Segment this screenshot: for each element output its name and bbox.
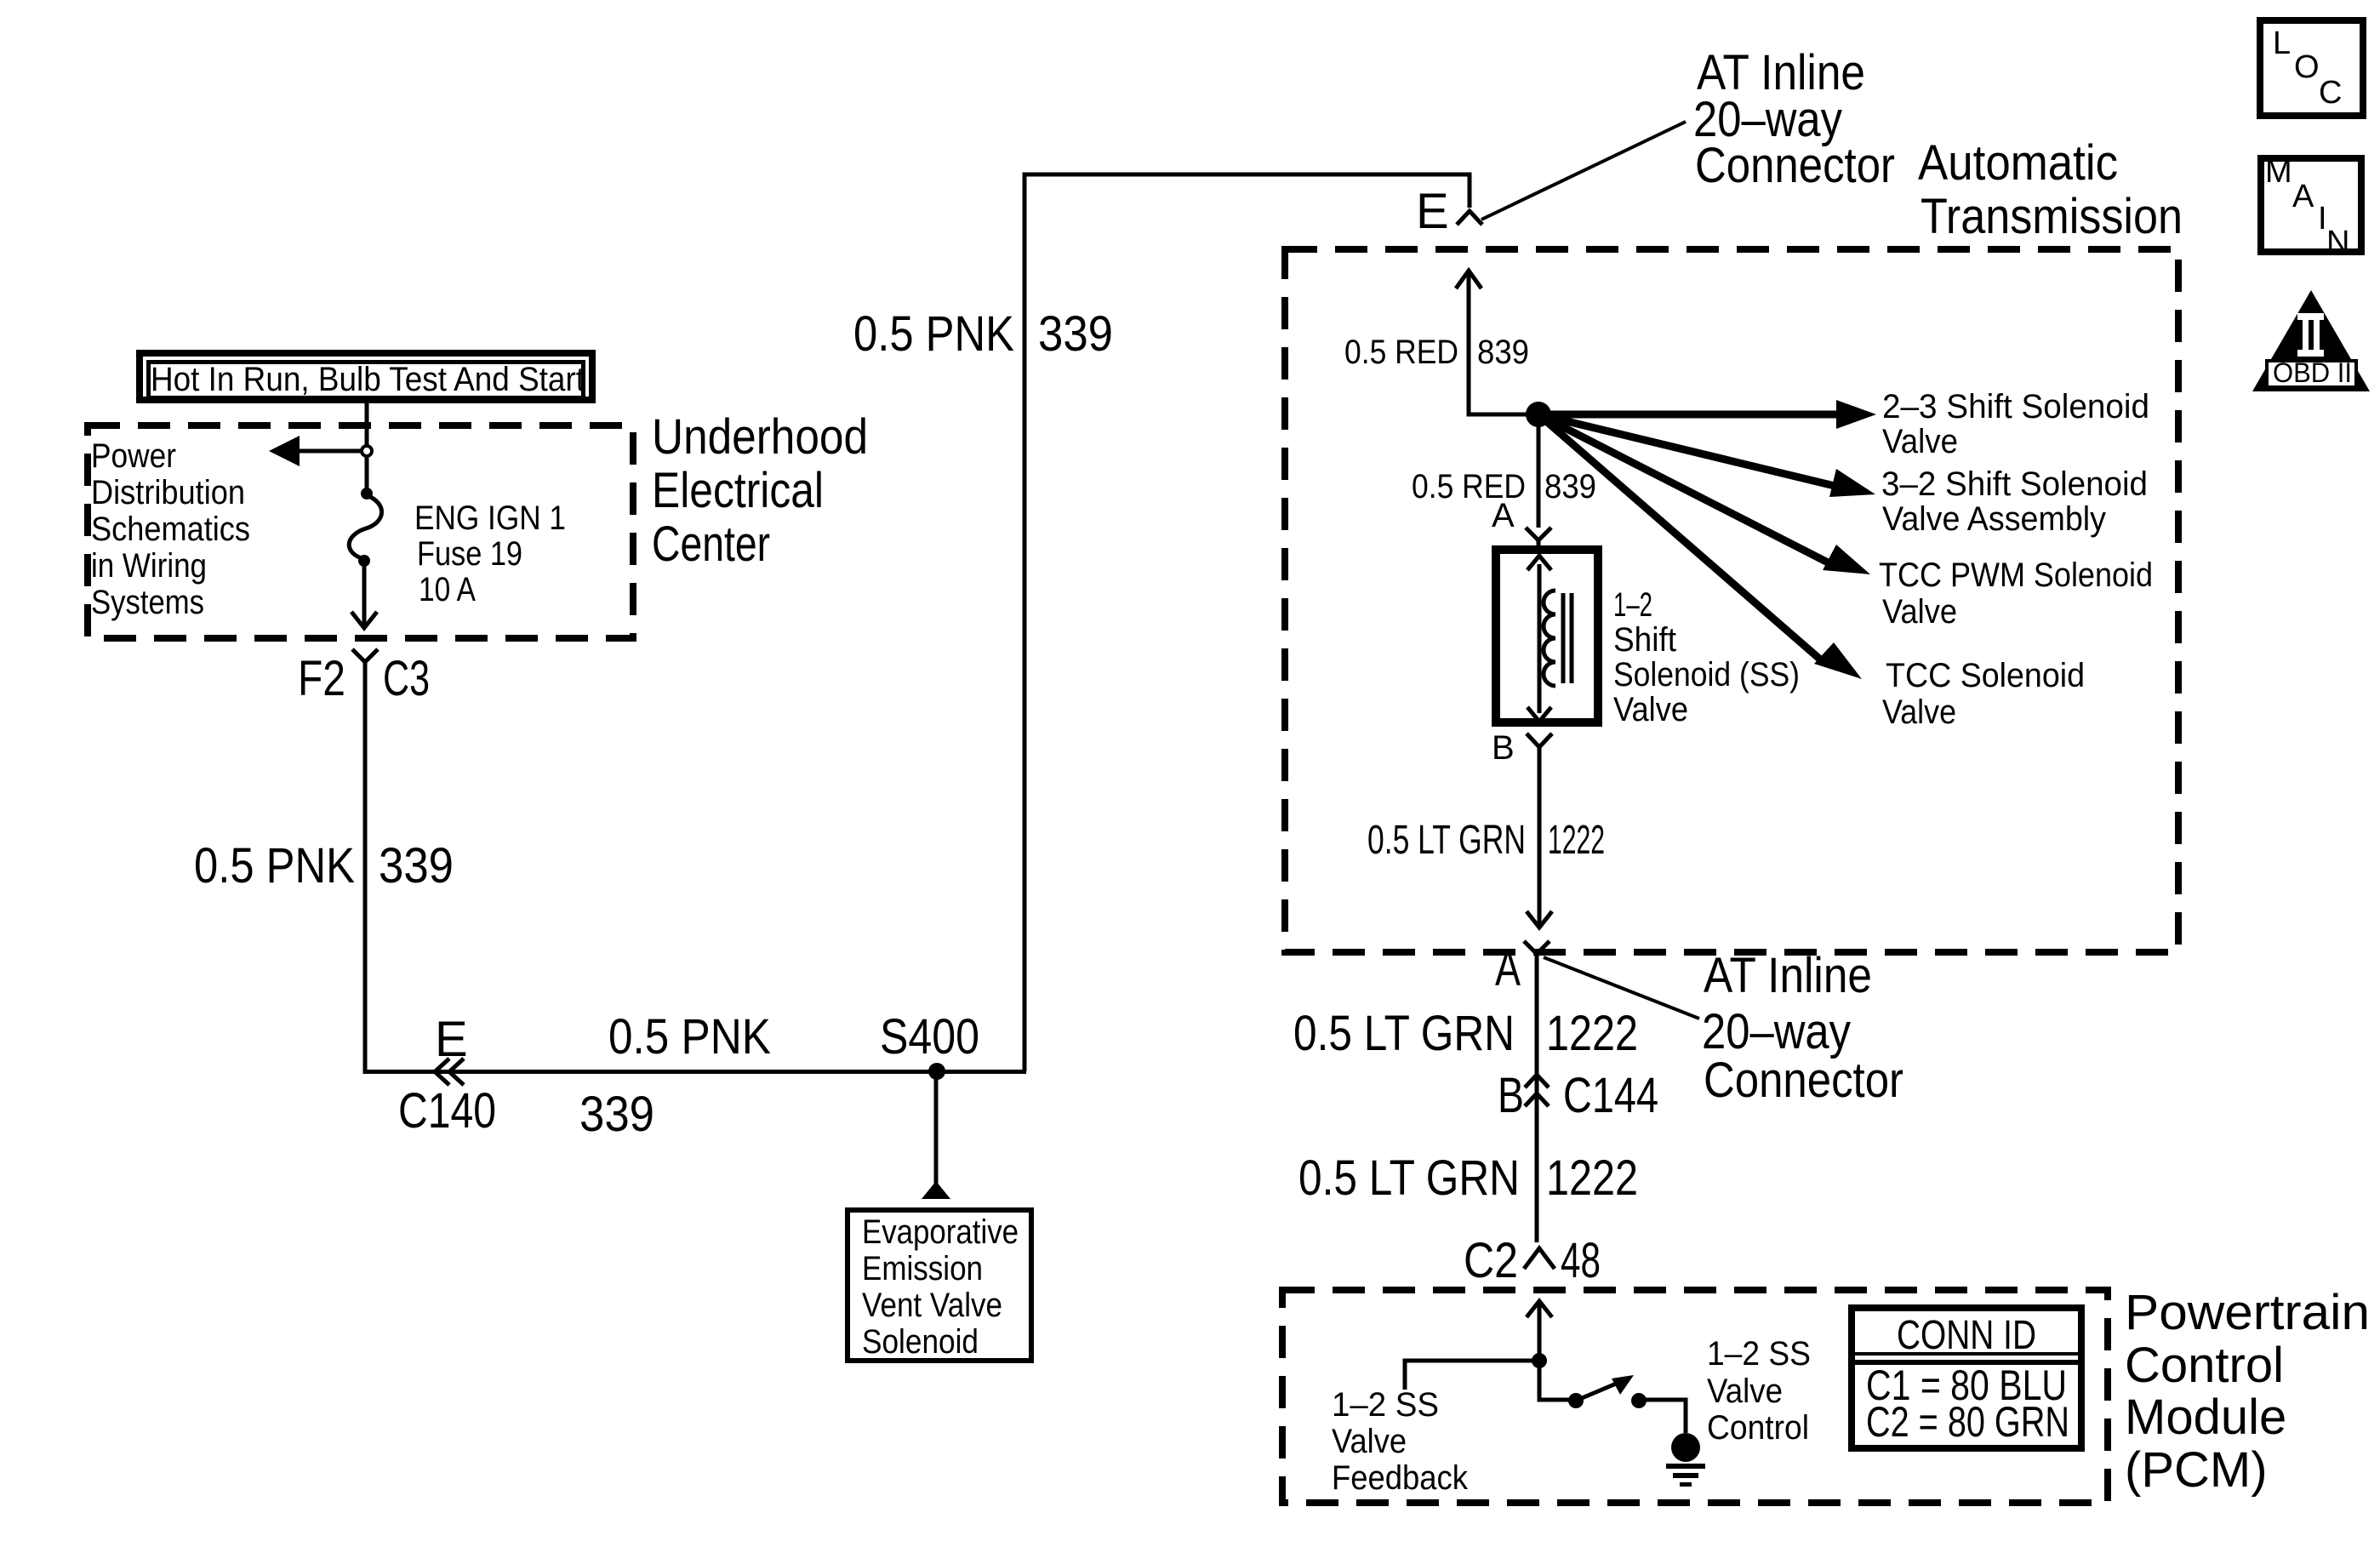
svg-text:839: 839 [1544,468,1596,505]
svg-text:ENG IGN 1: ENG IGN 1 [414,499,566,537]
wire fuse to F2 with down arrow [351,561,377,628]
label Powertrain Control Module (PCM) [2125,1285,2370,1498]
wire arrow to power distribution (left) [269,436,367,466]
svg-text:O: O [2294,49,2320,85]
svg-text:10 A: 10 A [419,571,476,608]
wire arrow to TCC PWM Solenoid Valve [1538,414,1870,574]
svg-text:Power: Power [91,437,176,475]
label Automatic Transmission [1918,135,2183,244]
svg-text:Valve: Valve [1882,694,1956,731]
wire 0.5 LT GRN 1222 (valve to inline pin A) with down arrow [1527,747,1552,928]
svg-text:339: 339 [579,1087,654,1142]
svg-text:OBD II: OBD II [2273,357,2352,388]
wire arrow to 2-3 Shift Solenoid Valve [1538,400,1876,429]
wire S400 down to Evaporative Emission Vent Valve Solenoid [922,1071,950,1199]
svg-text:Electrical: Electrical [652,463,824,518]
svg-text:Control: Control [2125,1338,2284,1393]
switch (1-2 SS driver) in PCM [1539,1361,1686,1433]
svg-text:Distribution: Distribution [91,474,245,511]
leader line to AT Inline label (bottom) [1544,957,1699,1019]
svg-text:Valve Assembly: Valve Assembly [1882,500,2106,538]
svg-text:TCC Solenoid: TCC Solenoid [1886,657,2085,694]
svg-text:Powertrain: Powertrain [2125,1285,2370,1340]
fuse box label "Hot In Run, Bulb Test And Start" [140,353,592,400]
svg-text:E: E [1416,184,1449,239]
wire 0.5 RED 839 (splice to 1-2 SS valve pin A) [1537,414,1541,528]
svg-text:1222: 1222 [1546,1150,1638,1206]
pin A of 1-2 shift solenoid [1492,497,1551,545]
svg-text:C2 = 80 GRN: C2 = 80 GRN [1866,1398,2069,1446]
svg-text:0.5 LT GRN: 0.5 LT GRN [1293,1006,1515,1061]
svg-text:0.5 PNK: 0.5 PNK [194,838,355,893]
svg-text:Transmission: Transmission [1921,189,2183,244]
leader line to AT Inline label (top) [1481,122,1686,220]
svg-text:Feedback: Feedback [1332,1459,1469,1497]
wire 0.5 RED 839 (E to splice) with up arrow [1456,271,1532,414]
ground (PCM internal) [1666,1433,1705,1487]
component Evaporative Emission Vent Valve Solenoid [848,1210,1031,1361]
wire horizontal run to S400 [365,1070,1026,1074]
label 0.5 PNK 339 (left run) [194,838,454,893]
symbol LOC box [2260,20,2363,116]
svg-text:1222: 1222 [1546,1006,1638,1061]
svg-text:Shift: Shift [1613,621,1676,659]
label 0.5 RED 839 (lower) [1412,468,1596,505]
svg-text:Schematics: Schematics [91,511,250,548]
wire into PCM with up arrow [1527,1301,1552,1361]
wire arrow to 3-2 Shift Solenoid Valve Assembly [1538,414,1875,497]
svg-text:I: I [2318,201,2327,237]
label AT Inline 20-way Connector (bottom) [1702,948,1903,1108]
label 1-2 SS Valve Control [1707,1335,1811,1447]
svg-text:0.5 PNK: 0.5 PNK [853,306,1014,362]
svg-text:F2: F2 [298,651,345,706]
svg-text:48: 48 [1561,1233,1601,1288]
svg-text:C2: C2 [1464,1233,1518,1288]
splice S400 [880,1009,979,1080]
label 0.5 RED 839 (upper) [1344,334,1529,371]
svg-text:Systems: Systems [91,584,204,621]
svg-text:1222: 1222 [1548,818,1605,863]
wire 1-2 SS Valve Feedback branch [1405,1361,1539,1390]
svg-text:0.5 RED: 0.5 RED [1344,334,1458,371]
label 0.5 PNK 339 (horizontal run) [579,1009,771,1142]
svg-text:(PCM): (PCM) [2125,1442,2268,1498]
connector A (AT inline 20-way) below transmission box [1495,941,1550,996]
label 1-2 SS Valve Feedback [1332,1386,1469,1497]
node junction in PCM [1532,1353,1547,1368]
label 0.5 LT GRN 1222 (lower) [1298,1150,1638,1206]
svg-text:AT Inline: AT Inline [1704,948,1872,1003]
wire 0.5 LT GRN 1222 (inline A to C144) [1535,954,1539,1242]
fuse ENG IGN 1, Fuse 19, 10 A [349,488,566,608]
svg-text:C3: C3 [383,651,430,706]
label 0.5 PNK 339 (riser) [853,306,1113,362]
svg-text:Solenoid (SS): Solenoid (SS) [1613,656,1800,694]
svg-text:C: C [2319,75,2342,111]
svg-text:E: E [435,1012,468,1067]
svg-text:C144: C144 [1563,1068,1658,1123]
svg-text:Module: Module [2125,1390,2286,1445]
svg-text:Valve: Valve [1332,1423,1407,1460]
svg-text:B: B [1498,1068,1524,1123]
svg-text:Fuse 19: Fuse 19 [417,535,522,573]
label 0.5 LT GRN 1222 (upper) [1293,1006,1638,1061]
svg-text:C140: C140 [398,1083,496,1139]
svg-text:Valve: Valve [1882,593,1957,631]
node at fuse top (ring) [362,446,372,456]
svg-text:TCC PWM Solenoid: TCC PWM Solenoid [1879,557,2153,594]
label TCC Solenoid Valve [1882,657,2085,731]
svg-text:Evaporative: Evaporative [862,1213,1019,1251]
svg-text:A: A [1495,941,1521,996]
svg-text:Solenoid: Solenoid [862,1323,979,1361]
svg-text:0.5 LT GRN: 0.5 LT GRN [1367,818,1526,863]
connector C2 / 48 (PCM) [1464,1233,1601,1288]
node splice in transmission [1526,402,1551,427]
svg-text:339: 339 [1038,306,1113,362]
symbol OBD II triangle [2252,290,2370,391]
svg-text:1–2 SS: 1–2 SS [1707,1335,1811,1373]
svg-text:L: L [2273,26,2291,61]
svg-text:Hot In Run, Bulb Test And Star: Hot In Run, Bulb Test And Start [151,361,585,398]
label 0.5 LT GRN 1222 (in transmission) [1367,818,1605,863]
svg-text:B: B [1492,729,1515,767]
svg-text:Valve: Valve [1882,423,1958,460]
svg-text:1–2 SS: 1–2 SS [1332,1386,1439,1424]
Automatic Transmission dashed box [1285,249,2178,952]
svg-text:S400: S400 [880,1009,979,1065]
svg-text:Underhood: Underhood [652,409,868,465]
component 1-2 Shift Solenoid (SS) Valve [1496,550,1598,722]
svg-text:0.5 PNK: 0.5 PNK [608,1009,771,1065]
symbol MAIN box [2261,154,2361,260]
svg-text:in Wiring: in Wiring [91,547,207,585]
svg-text:Vent Valve: Vent Valve [862,1287,1002,1324]
svg-text:Control: Control [1707,1409,1809,1447]
label 3-2 Shift Solenoid Valve Assembly [1881,465,2148,538]
connector E (AT inline 20-way, pin E) [1416,184,1482,239]
svg-text:0.5 LT GRN: 0.5 LT GRN [1298,1150,1520,1206]
svg-text:A: A [2292,179,2314,214]
wire from Hot In Run box down to fuse [365,403,369,492]
label AT Inline 20-way Connector (top) [1693,45,1895,193]
svg-text:Emission: Emission [862,1250,983,1287]
pin B of 1-2 shift solenoid [1492,729,1552,767]
table CONN ID [1852,1308,2081,1448]
label 2-3 Shift Solenoid Valve [1882,388,2149,460]
svg-text:839: 839 [1477,334,1529,371]
svg-text:Valve: Valve [1707,1373,1783,1410]
Powertrain Control Module dashed box [1282,1290,2108,1503]
label TCC PWM Solenoid Valve [1879,557,2153,631]
svg-text:N: N [2326,225,2349,260]
note Power Distribution Schematics in Wiring Systems [91,437,250,621]
svg-text:Valve: Valve [1613,691,1688,728]
wire arrow to TCC Solenoid Valve [1538,414,1862,679]
Underhood Electrical Center dashed box [88,425,633,638]
svg-text:A: A [1492,497,1515,534]
label Underhood Electrical Center [652,409,868,572]
label 1-2 Shift Solenoid (SS) Valve [1613,586,1800,728]
wire riser S400 up and across to E (top) [1024,174,1470,1071]
connector B / C144 (double chevron) [1498,1068,1658,1123]
svg-text:3–2 Shift Solenoid: 3–2 Shift Solenoid [1881,465,2148,503]
svg-text:Automatic: Automatic [1918,135,2118,191]
wire 0.5 PNK 339 (left vertical run) [363,662,368,1074]
svg-text:1–2: 1–2 [1613,586,1652,624]
svg-text:20–way: 20–way [1702,1004,1851,1059]
connector F2 / C3 (Y symbol) [298,649,430,706]
svg-text:339: 339 [379,838,454,893]
connector E / C140 (double chevron) [398,1012,496,1139]
svg-text:Connector: Connector [1695,138,1895,193]
svg-text:2–3 Shift Solenoid: 2–3 Shift Solenoid [1882,388,2149,425]
svg-text:Center: Center [652,517,770,572]
svg-text:M: M [2265,154,2292,190]
svg-text:Connector: Connector [1704,1053,1903,1108]
svg-text:CONN ID: CONN ID [1897,1313,2036,1358]
